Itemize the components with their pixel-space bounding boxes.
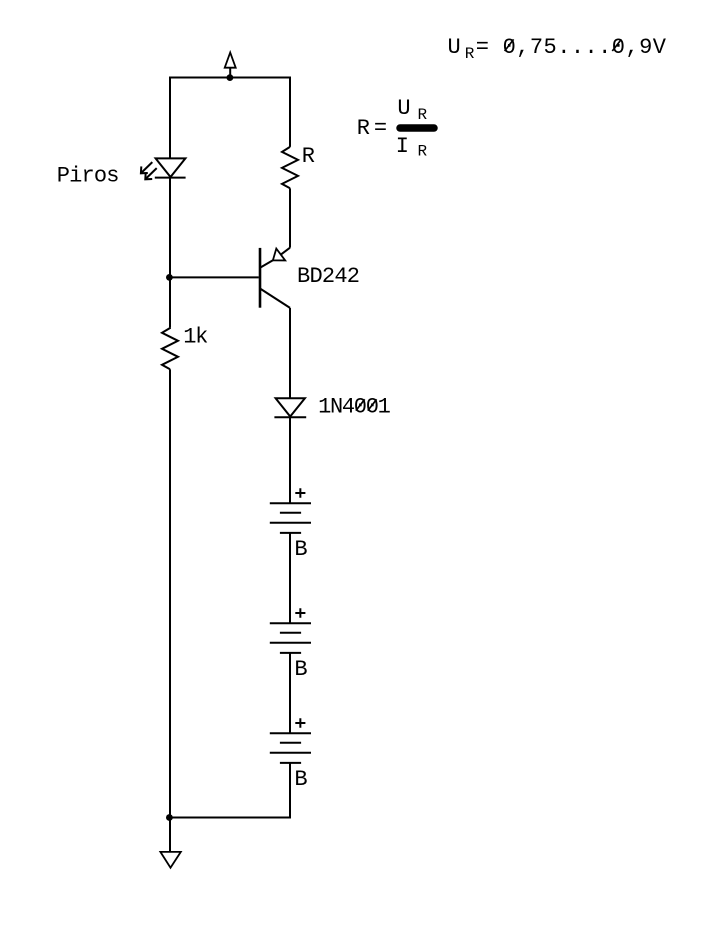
- label Piros: [57, 164, 119, 189]
- svg-text:0,75....0,9V: 0,75....0,9V: [503, 35, 667, 60]
- wire resistor R to emitter: [289, 188, 291, 247]
- label 1N4001: [318, 395, 391, 420]
- svg-text:B: B: [294, 537, 307, 562]
- label B (battery B2): [294, 657, 307, 682]
- wire bottom horizontal rail: [169, 817, 291, 819]
- wire left rail between LED and 1k: [169, 178, 171, 328]
- LED light arrows: [141, 162, 157, 179]
- LED Piros (diode triangle): [155, 158, 186, 177]
- battery B1 plus sign: [295, 488, 305, 498]
- wire battery B3 to bottom rail: [289, 763, 291, 818]
- svg-text:Piros: Piros: [57, 164, 119, 189]
- node top junction dot: [227, 74, 234, 81]
- battery B3 plates: [270, 733, 311, 763]
- label 1k: [183, 325, 208, 350]
- wire collector to diode: [289, 308, 291, 398]
- svg-text:R: R: [357, 116, 370, 141]
- wire left rail lower segment: [169, 369, 171, 817]
- label BD242: [297, 264, 359, 289]
- svg-text:B: B: [294, 657, 307, 682]
- wire top horizontal rail: [169, 77, 291, 79]
- node base junction dot: [166, 274, 173, 281]
- resistor R: [282, 147, 298, 188]
- battery B2 plates: [270, 623, 311, 653]
- label B (battery B1): [294, 537, 307, 562]
- wire base connection: [169, 276, 259, 278]
- wire battery B1 to battery B2: [289, 533, 291, 623]
- svg-text:U: U: [448, 35, 461, 60]
- resistor 1k: [162, 328, 178, 369]
- battery B3 plus sign: [295, 718, 305, 728]
- svg-text:=: =: [374, 116, 387, 141]
- transistor Q1 BD242 (PNP): [260, 248, 290, 308]
- svg-text:1N4001: 1N4001: [318, 395, 391, 420]
- svg-text:B: B: [294, 767, 307, 792]
- svg-text:R: R: [418, 106, 428, 124]
- svg-text:=: =: [476, 35, 489, 60]
- svg-text:1k: 1k: [183, 325, 208, 350]
- formula fraction bar: [400, 124, 434, 132]
- svg-text:U: U: [397, 96, 410, 121]
- wire right rail upper segment: [289, 78, 291, 147]
- label R: [302, 144, 315, 169]
- supply arrow (up): [225, 53, 236, 78]
- wire diode to battery B1: [289, 417, 291, 502]
- battery B1 plates: [270, 503, 311, 533]
- label U_R = 0,75....0,9V: [448, 35, 667, 63]
- slashed zero marks: [356, 39, 621, 410]
- svg-text:R: R: [465, 45, 475, 63]
- ground stub wire: [169, 818, 171, 852]
- wire battery B2 to battery B3: [289, 653, 291, 733]
- diode D1 1N4001: [274, 398, 306, 417]
- label B (battery B3): [294, 767, 307, 792]
- wire left rail upper segment: [169, 78, 171, 159]
- battery B2 plus sign: [295, 608, 305, 618]
- formula R = U_R / I_R: [357, 96, 428, 160]
- svg-text:I: I: [396, 134, 409, 159]
- node bottom junction dot: [166, 814, 173, 821]
- ground arrow (down): [160, 852, 180, 868]
- svg-text:R: R: [418, 142, 428, 160]
- svg-text:BD242: BD242: [297, 264, 359, 289]
- svg-text:R: R: [302, 144, 315, 169]
